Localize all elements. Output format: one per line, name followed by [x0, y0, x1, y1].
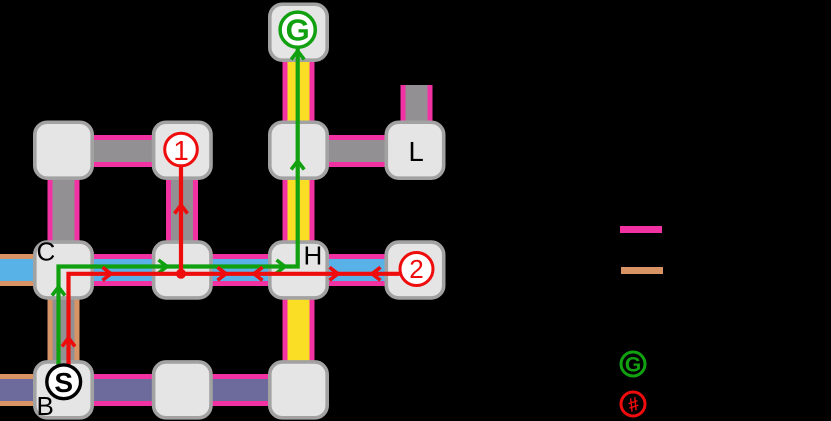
node B	[35, 362, 92, 418]
node L	[386, 122, 443, 178]
svg-text:1: 1	[173, 135, 189, 166]
green arrow right in H	[277, 260, 286, 273]
red arrow up between B and C	[62, 338, 75, 347]
S station circle	[47, 365, 81, 399]
svg-text:C: C	[37, 237, 56, 267]
edge G-row2col3 (magenta/yellow)	[283, 31, 315, 151]
green arrow right in row3col2	[159, 260, 168, 273]
node 1-station	[154, 122, 211, 178]
edge row2col1-C (magenta/gray)	[48, 150, 80, 270]
svg-text:S: S	[54, 367, 73, 398]
node row2col3	[270, 122, 327, 178]
svg-text:H: H	[304, 241, 323, 271]
edge row2 col1-col2 (magenta/gray)	[64, 135, 182, 167]
svg-text:G: G	[286, 13, 310, 48]
svg-text:B: B	[37, 391, 54, 421]
node H	[270, 242, 327, 298]
green arrow up in row2col3	[291, 161, 304, 170]
svg-text:L: L	[409, 136, 424, 167]
green route S to G	[59, 48, 298, 374]
legend G icon	[621, 352, 645, 377]
edge C-B (orange/gray)	[48, 269, 80, 390]
red arrow right after C	[103, 267, 112, 280]
edge row3col2-H (magenta/blue)	[182, 254, 299, 286]
red route S to C to 2	[69, 274, 400, 373]
node row2col1	[35, 122, 92, 178]
G station circle	[280, 12, 315, 47]
red arrow up toward 1	[175, 205, 188, 214]
edge row4col2-row4col3 (magenta/purple)	[182, 374, 299, 406]
edge west of B (orange/purple, open left)	[0, 374, 64, 406]
node C	[35, 242, 92, 298]
red arrow right after H	[330, 267, 339, 280]
red arrow left at H west side	[254, 267, 263, 280]
svg-text:G: G	[625, 354, 641, 377]
green arrow up in C	[52, 287, 65, 296]
node row3col2	[154, 242, 211, 298]
node 2-station	[386, 242, 443, 298]
edge B-row4col2 (magenta/purple)	[64, 374, 182, 406]
edge 1-row3col2 (magenta/gray)	[166, 150, 198, 270]
legend numbered-stop icon	[621, 392, 645, 417]
green arrow up below G	[291, 51, 304, 60]
svg-text:2: 2	[409, 254, 423, 284]
red arrow right before H	[218, 267, 227, 280]
node row4col3	[270, 362, 327, 418]
red branch junction to 1	[179, 166, 183, 274]
node G-station	[270, 4, 327, 60]
legend orange line swatch	[621, 267, 663, 274]
legend magenta line swatch	[620, 226, 662, 233]
edge west of C (orange/blue, open left)	[0, 254, 64, 286]
edge row2col3-H (magenta/yellow)	[283, 150, 315, 270]
edge stub above L (magenta/gray, open top)	[401, 85, 433, 151]
edge row2 col3-L (magenta/gray)	[299, 135, 415, 167]
edge H-row4col3 (magenta/yellow)	[283, 269, 315, 390]
red arrow left from 2	[372, 267, 381, 280]
node row4col2	[154, 362, 211, 418]
edge C-row3col2 (magenta/blue)	[64, 254, 182, 286]
stop 1 circle	[165, 133, 198, 166]
stop 2 circle	[400, 253, 433, 286]
red junction dot	[176, 269, 186, 279]
edge H-2 (magenta/blue)	[299, 254, 415, 286]
